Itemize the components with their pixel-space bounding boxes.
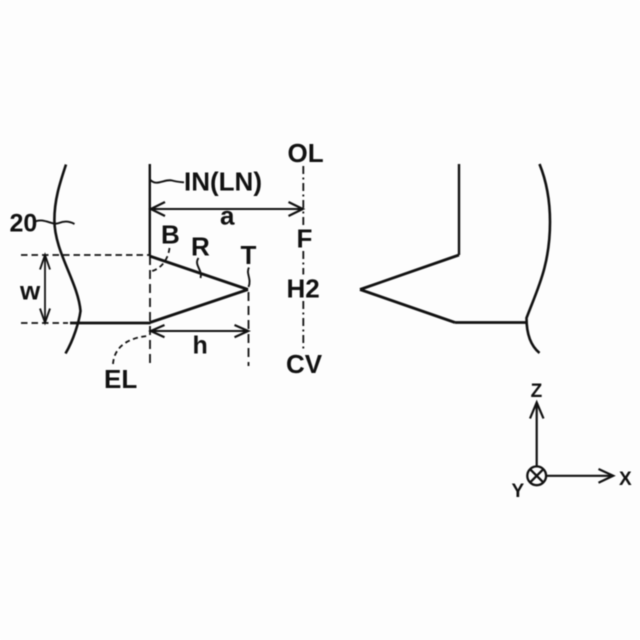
Z axis arrowhead xyxy=(530,403,544,419)
svg-text:H2: H2 xyxy=(287,274,320,304)
svg-text:CV: CV xyxy=(286,349,323,379)
svg-text:B: B xyxy=(161,220,180,250)
dashed projection line at ridge tip x=248.5 xyxy=(248,292,250,366)
dimension w arrow line xyxy=(44,257,46,322)
svg-text:X: X xyxy=(619,469,632,490)
svg-text:F: F xyxy=(297,224,313,254)
lens bottom face line xyxy=(70,322,151,325)
svg-text:T: T xyxy=(241,240,257,270)
dimension h left arrowhead xyxy=(151,325,165,337)
dimension a right arrowhead xyxy=(289,202,303,216)
dimension h arrow line xyxy=(152,330,247,332)
svg-text:h: h xyxy=(193,332,208,360)
X axis arrowhead xyxy=(599,469,614,483)
dashed base line of ridge at x=150 xyxy=(149,256,151,368)
right lens half: ridge lower edge xyxy=(360,290,455,323)
dimension w bottom arrowhead xyxy=(40,309,50,323)
dashed extension line bottom (w lower) xyxy=(21,322,68,324)
svg-text:IN(LN): IN(LN) xyxy=(184,167,262,197)
dashed extension line top (w upper) xyxy=(21,254,149,256)
svg-text:Y: Y xyxy=(512,481,525,502)
dashed leader from EL to lens edge corner xyxy=(113,336,147,364)
dimension w top arrowhead xyxy=(40,255,50,270)
lens flat incident face IN vertical line xyxy=(149,164,151,256)
optical axis dash-dot line segment OL to F xyxy=(302,166,304,226)
leader from T to ridge tip xyxy=(248,268,250,288)
right lens half: bottom face line xyxy=(455,321,527,324)
optical axis dash-dot line segment F to H2 xyxy=(302,251,304,275)
right lens half: ridge upper edge xyxy=(360,255,459,290)
ridge lower edge from tip T to EL corner xyxy=(150,290,248,323)
dimension h right arrowhead xyxy=(235,325,249,337)
leader from R to ridge upper face xyxy=(197,258,201,278)
svg-text:20: 20 xyxy=(10,210,38,238)
X axis arrow line xyxy=(547,475,613,477)
svg-text:R: R xyxy=(191,232,210,262)
Z axis arrow line xyxy=(536,403,538,466)
svg-text:OL: OL xyxy=(288,138,324,168)
right break-line curve xyxy=(527,164,551,353)
ridge upper edge from B corner to tip T xyxy=(150,256,249,290)
coordinate origin circle with cross (Y into page) xyxy=(527,466,546,485)
svg-text:w: w xyxy=(19,276,41,306)
svg-text:Z: Z xyxy=(531,381,543,402)
optical axis dash-dot line segment H2 to CV xyxy=(302,301,304,351)
leader from IN line to label IN(LN) xyxy=(150,180,184,183)
leader from 20 to lens edge xyxy=(35,220,75,224)
angle B dashed arc leader xyxy=(151,248,170,272)
right lens half: flat face vertical line xyxy=(458,164,460,255)
svg-text:EL: EL xyxy=(104,364,137,394)
svg-text:a: a xyxy=(220,201,235,231)
left break-line curve of lens 20 xyxy=(54,165,80,354)
dimension a arrow line xyxy=(152,208,303,210)
dimension a left arrowhead xyxy=(151,202,165,216)
